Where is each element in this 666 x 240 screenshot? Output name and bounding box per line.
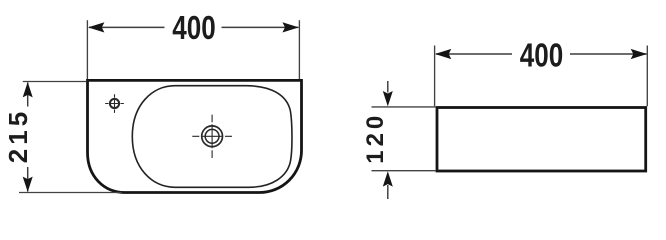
dimension 215 left: extension lines bbox=[19, 82, 122, 193]
svg-text:400: 400 bbox=[520, 38, 563, 75]
dimension 120: top arrowhead bbox=[383, 91, 393, 106]
dimension 120: extension lines bbox=[372, 107, 436, 171]
dimension 400 top-left: right arrowhead bbox=[282, 22, 298, 32]
svg-text:215: 215 bbox=[3, 108, 33, 163]
faucet hole symbol bbox=[105, 94, 124, 113]
drain symbol bbox=[192, 115, 232, 158]
dimension 120: bottom arrow line bbox=[387, 185, 389, 199]
dimension 400 right: right arrowhead bbox=[631, 49, 647, 59]
top view basin outline bbox=[88, 80, 302, 192]
svg-text:120: 120 bbox=[362, 112, 389, 164]
dimension 400 top-left: left arrowhead bbox=[88, 22, 104, 32]
dimension 400 right: dimension line bbox=[436, 53, 647, 55]
dimension 215 left: top arrowhead bbox=[23, 82, 33, 97]
dimension 400 right: left arrowhead bbox=[435, 49, 451, 59]
dimension 120: bottom arrowhead bbox=[383, 171, 393, 186]
dimension 400 right: extension lines bbox=[435, 46, 648, 107]
dimension 120: top arrow line bbox=[387, 81, 389, 93]
dimension 400 top-left: dimension line bbox=[89, 26, 298, 28]
svg-text:400: 400 bbox=[172, 10, 215, 47]
side view slab bbox=[437, 108, 646, 172]
inner bowl outline bbox=[132, 86, 292, 188]
dimension 400 top-left: extension lines bbox=[87, 20, 299, 79]
dimension 215 left: dimension line bbox=[27, 83, 29, 192]
dimension 215 left: bottom arrowhead bbox=[23, 177, 33, 192]
